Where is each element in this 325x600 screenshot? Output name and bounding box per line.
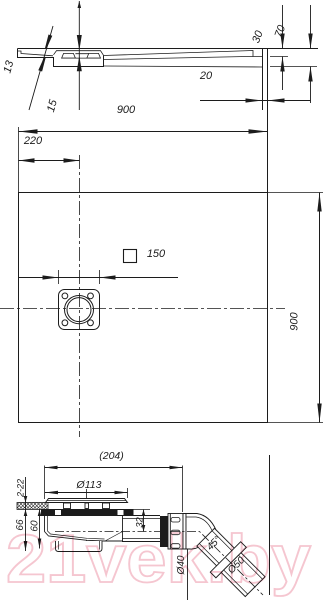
coupling Ø50 [221,553,265,597]
dimension 13 diagonal line [29,26,53,110]
dimension 150 line [19,277,179,279]
svg-text:Ø113: Ø113 [76,479,102,491]
drain inner circle [67,298,91,322]
tray left edge [18,49,104,67]
dimension 900 line (top view) [19,131,268,133]
trap body [45,516,123,541]
drain cover plate [46,499,128,503]
tray shell lower slope [104,56,254,59]
svg-text:30: 30 [250,28,266,44]
tray top surface line [18,48,319,50]
tray right edge inner [262,49,264,111]
svg-text:220: 220 [23,135,43,147]
dimension Ø113 line [45,492,128,494]
tray left inner lip [18,51,54,56]
svg-text:2-22: 2-22 [15,479,25,498]
svg-text:150: 150 [147,248,166,260]
elbow inner contour [186,517,212,531]
extension line bottom right [270,66,317,68]
clamp ring dark band [41,509,134,516]
dimension 900 vertical line [319,193,321,423]
svg-text:15: 15 [45,98,60,114]
vertical centerline [79,155,81,437]
svg-text:13: 13 [1,59,16,75]
drain flange side line [62,54,101,58]
union nut [168,514,183,550]
horizontal centerline [0,308,285,310]
tray bottom line [104,66,263,67]
square symbol [124,250,137,263]
svg-text:20: 20 [199,70,213,82]
bolt holes [62,293,68,299]
elbow body [186,514,216,550]
svg-text:70: 70 [273,23,289,39]
inclined pipe Ø40 [197,528,238,569]
bottom view vertical centerline [86,489,88,546]
dimension 15 arrows [78,1,82,8]
plan square [19,193,268,423]
dimension 70 line [310,5,312,49]
extension line left [18,127,20,193]
trap sump [56,541,103,552]
pipe centerline [55,532,263,596]
svg-text:900: 900 [117,104,136,116]
cover feet [64,503,71,509]
inclined pipe group [190,522,270,600]
tray right edge outer [267,49,269,194]
trap sump inner line [59,541,100,550]
dimension 32 [126,509,150,511]
dimension 13 arrows [45,35,52,49]
right boundary line [269,455,271,595]
dimension 2-22 / 66 line [25,477,27,551]
cover plate middle line [47,500,126,502]
outlet pipe [122,516,160,542]
tray floor slope [104,51,263,57]
dimension 60 line [39,510,41,549]
drain outer circle [65,296,94,324]
svg-text:21vek.by: 21vek.by [6,521,311,597]
dimension 220 line [19,160,80,162]
svg-text:(204): (204) [99,450,124,462]
dimension 30 line [282,5,284,49]
dimension 15 vertical line [78,1,80,110]
dimension (204) line [45,467,183,469]
extension line lip right [270,56,288,58]
drain cover top line in recess [54,51,104,56]
dimension Ø40 extension [187,549,189,600]
drain flange plan rounded square [59,290,100,330]
svg-text:900: 900 [288,311,300,330]
drain flange side bumps [62,53,101,58]
pipe seal ring [160,516,168,547]
dimension 20 line [200,100,311,102]
joint ring [210,542,246,578]
elbow 45 socket [183,514,186,550]
tray floor hatched strip [17,503,48,510]
plan square edge extensions [268,192,324,194]
trap body inner lines [48,516,123,541]
